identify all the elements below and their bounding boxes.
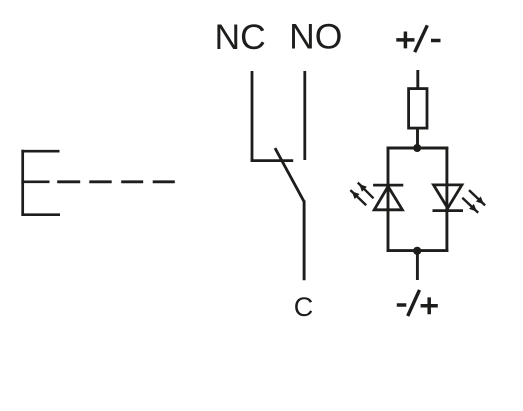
common terminal wire: [303, 201, 306, 281]
svg-text:NO: NO: [289, 17, 342, 57]
magnet actuator: [21, 150, 60, 216]
wire left branch: [387, 147, 390, 252]
switch lever: [275, 148, 304, 202]
label +/-: [396, 25, 440, 52]
wire resistor to top node: [416, 128, 419, 148]
NC contact bar: [251, 159, 294, 162]
node junction top: [413, 144, 421, 152]
LED D1 (left, pointing up): [373, 185, 403, 210]
LED D2 (right, pointing down): [433, 185, 464, 211]
wire right branch: [445, 147, 448, 252]
LED D1 emission arrows: [350, 183, 373, 206]
NO terminal wire: [303, 71, 306, 160]
svg-text:NC: NC: [214, 17, 265, 57]
resistor R: [409, 89, 427, 129]
svg-text:C: C: [294, 292, 314, 322]
label -/+: [397, 290, 438, 316]
wire top to resistor: [416, 70, 419, 89]
dashed actuation link: [57, 180, 175, 183]
wire parallel bottom bar: [387, 249, 449, 252]
LED D2 emission arrows: [462, 190, 485, 213]
NC terminal wire: [251, 71, 254, 161]
node junction bottom: [413, 247, 421, 255]
wire bottom terminal: [416, 251, 419, 280]
wire parallel top bar: [387, 147, 449, 150]
